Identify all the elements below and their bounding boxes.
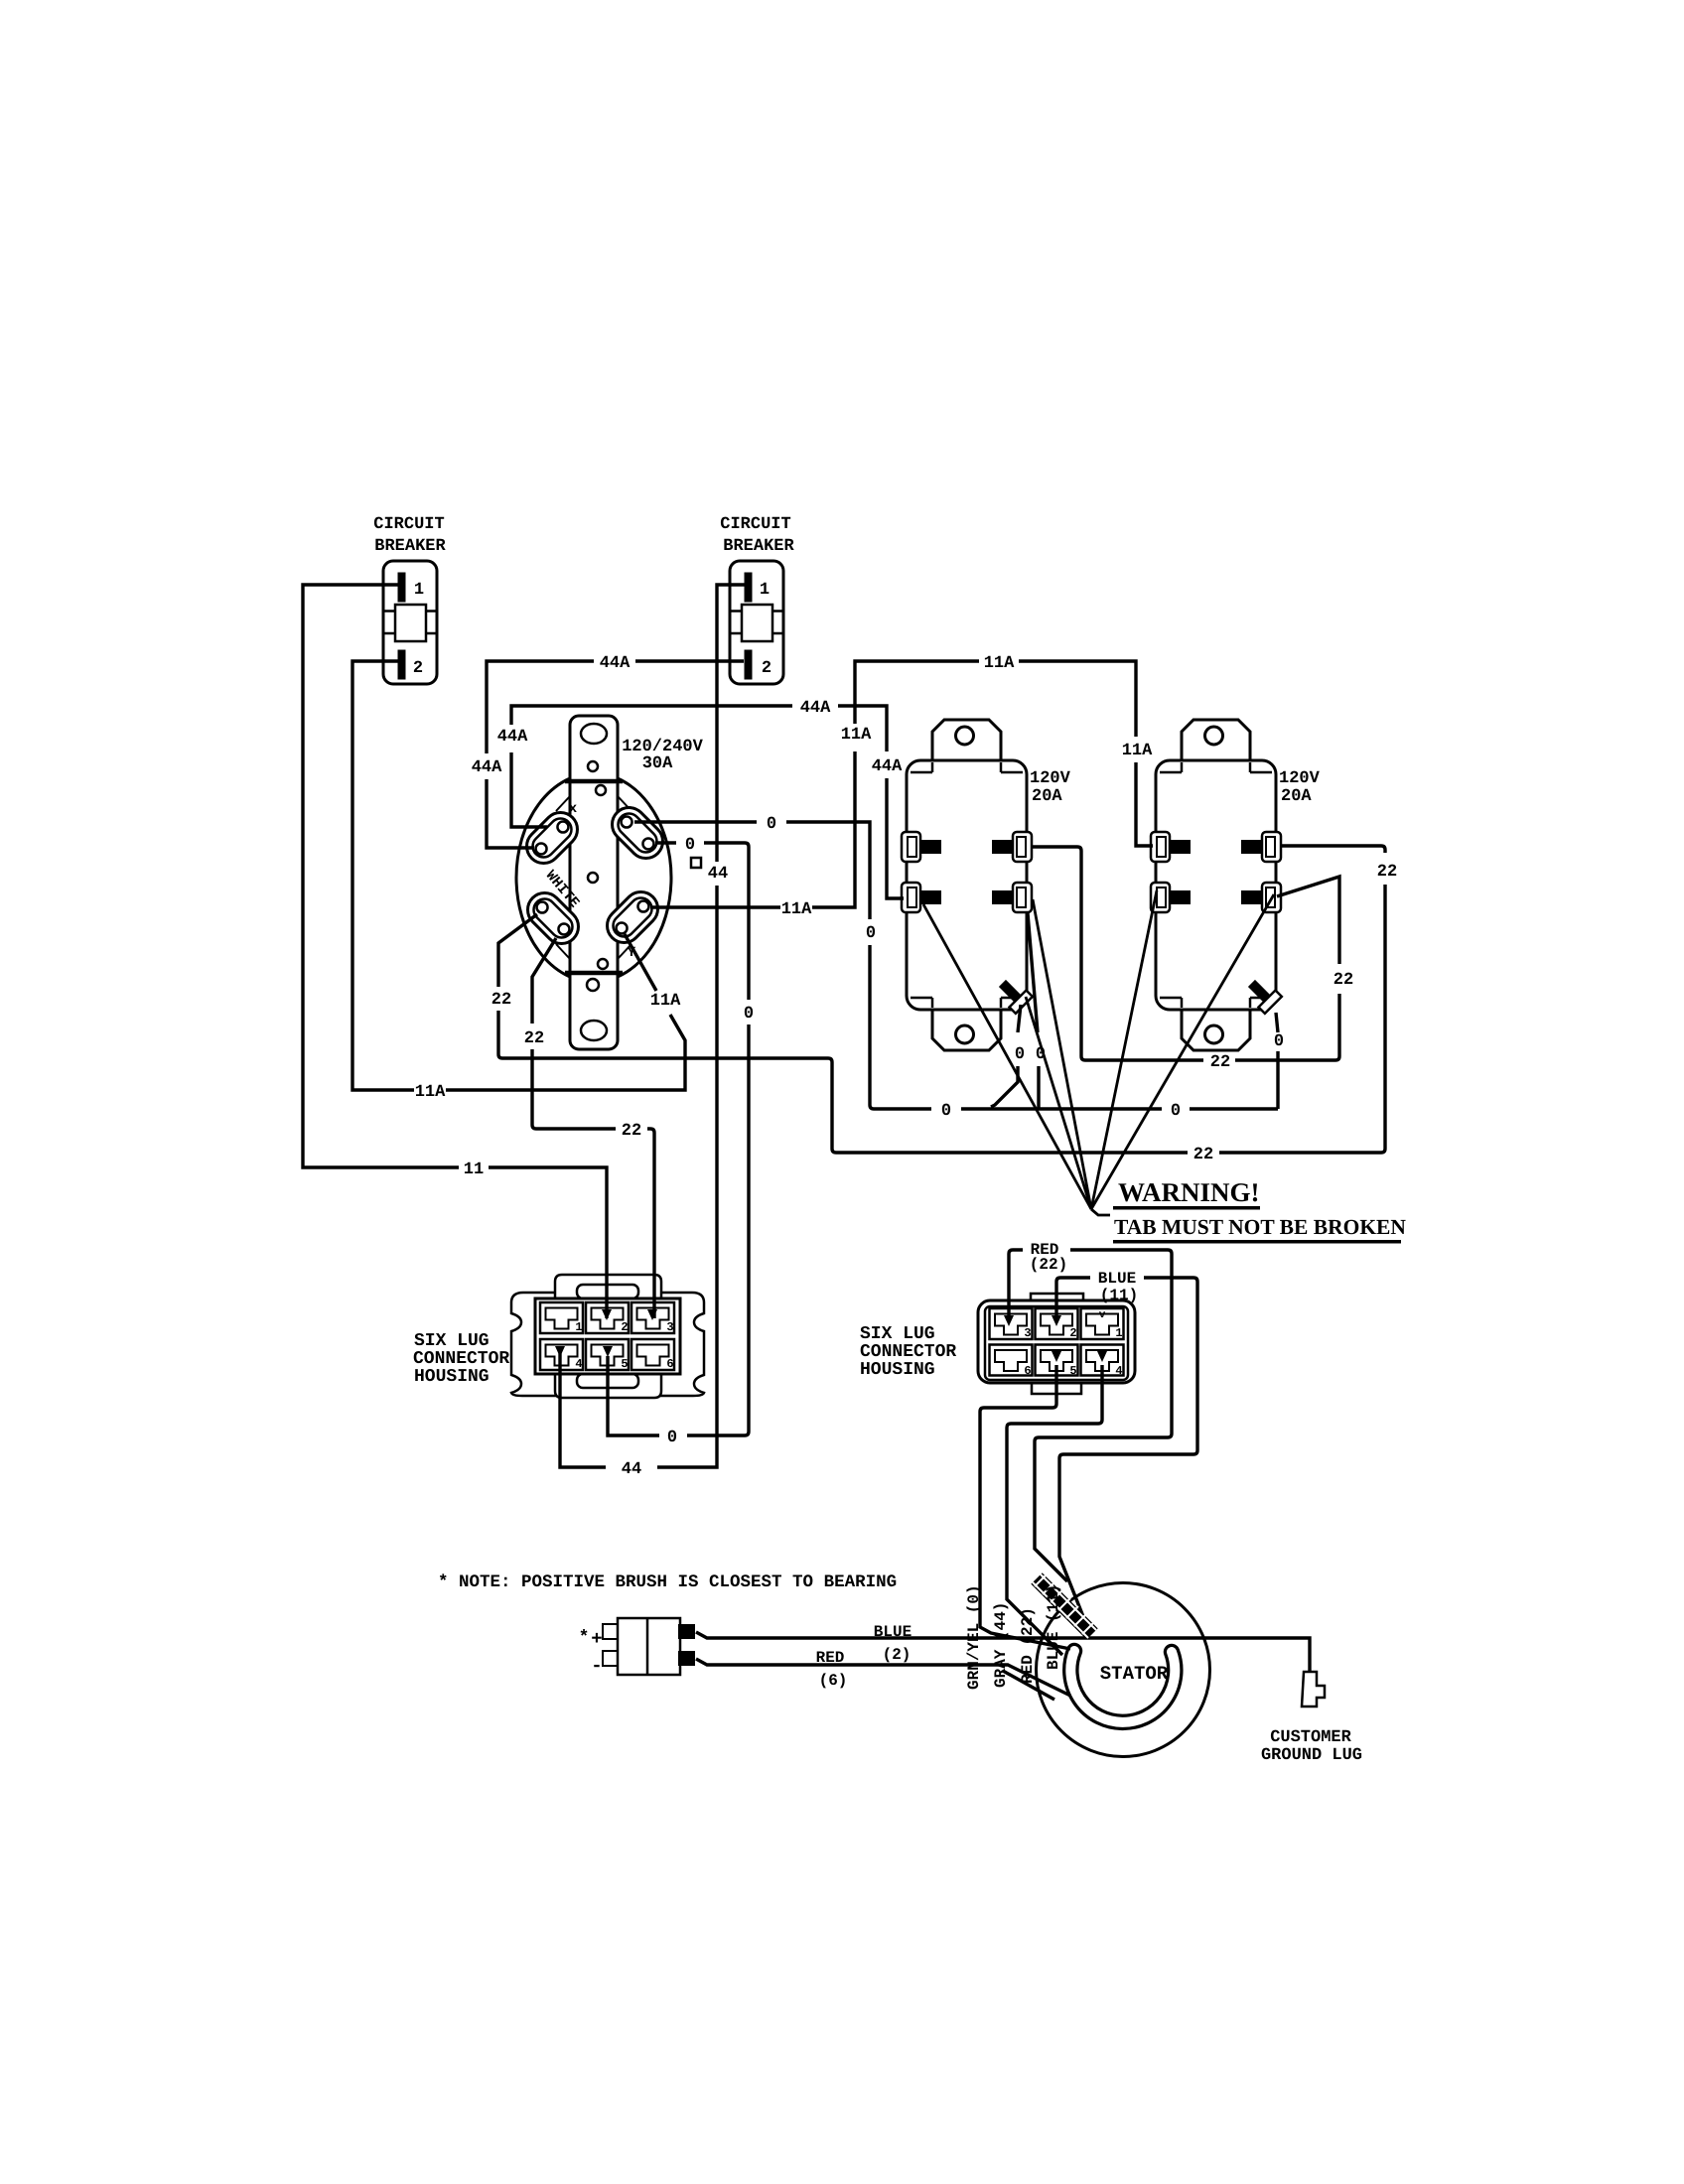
wire entry wedges right six-lug [1004, 1315, 1107, 1362]
harness bundle hatched band [1033, 1574, 1096, 1638]
svg-text:-: - [591, 1655, 602, 1677]
svg-text:44A: 44A [800, 699, 831, 718]
svg-text:22: 22 [1193, 1146, 1213, 1164]
svg-text:120V: 120V [1279, 769, 1321, 788]
wire 22: 30A WHITE slot upper to right duplex upper-right prong [498, 846, 1385, 1153]
wire 44A: 30A X slot upper to left duplex lower-left prong [511, 706, 904, 898]
svg-text:(11): (11) [1100, 1287, 1138, 1304]
receptacle 120V 20A right [1151, 720, 1282, 1050]
circuit breaker CB2 [730, 561, 783, 684]
svg-text:11: 11 [464, 1160, 484, 1179]
svg-text:BLUE: BLUE [1098, 1270, 1136, 1288]
svg-text:v: v [1099, 1309, 1106, 1321]
svg-text:11A: 11A [984, 654, 1015, 673]
svg-text:11A: 11A [415, 1083, 446, 1102]
svg-text:RED: RED [816, 1649, 845, 1667]
svg-text:STATOR: STATOR [1100, 1663, 1169, 1685]
svg-text:11A: 11A [1122, 742, 1153, 760]
30A slot W (top-right) [605, 800, 669, 865]
svg-text:22: 22 [491, 991, 511, 1010]
svg-text:1: 1 [575, 1320, 582, 1334]
svg-text:0: 0 [667, 1429, 677, 1447]
svg-text:6: 6 [666, 1357, 673, 1371]
svg-text:WARNING!: WARNING! [1118, 1177, 1260, 1207]
warning pointer lines to break-off tabs [923, 904, 1091, 1209]
30A mounting strap [570, 716, 618, 1049]
svg-text:TAB MUST NOT BE BROKEN: TAB MUST NOT BE BROKEN [1114, 1215, 1406, 1239]
svg-text:0: 0 [1015, 1045, 1025, 1064]
30A slot Y (bottom-right) [600, 885, 664, 949]
six-lug left cells 1-6 [540, 1302, 583, 1333]
svg-text:0: 0 [1171, 1102, 1181, 1121]
svg-text:44A: 44A [600, 654, 631, 673]
svg-text:+: + [591, 1628, 602, 1650]
svg-text:44A: 44A [872, 757, 903, 776]
svg-text:4: 4 [575, 1357, 582, 1371]
svg-text:HOUSING: HOUSING [860, 1360, 935, 1380]
30A slot X (top-left) [519, 805, 584, 870]
wire 0: left duplex lower-right prong drop to 0 bus [1028, 913, 1039, 1109]
svg-text:1: 1 [414, 581, 424, 600]
svg-text:GRAY (44): GRAY (44) [992, 1602, 1010, 1688]
svg-text:0: 0 [1036, 1045, 1046, 1064]
svg-text:Y: Y [628, 945, 636, 961]
label WHITE (rotated) [542, 868, 582, 911]
svg-text:HOUSING: HOUSING [414, 1367, 490, 1387]
receptacle 120V 20A left [902, 720, 1033, 1050]
svg-text:1: 1 [760, 581, 770, 600]
svg-text:2: 2 [762, 659, 772, 678]
30A slot WHITE (bottom-left) [520, 886, 585, 950]
wire 44: CB2 terminal1 to left six-lug pin 4 [560, 585, 745, 1467]
circuit breaker CB1 [383, 561, 437, 684]
svg-text:BREAKER: BREAKER [374, 537, 446, 556]
svg-text:SIX LUG: SIX LUG [860, 1324, 935, 1344]
svg-text:(6): (6) [819, 1672, 848, 1690]
svg-text:22: 22 [524, 1029, 544, 1048]
svg-text:5: 5 [1069, 1364, 1076, 1378]
svg-text:6: 6 [1024, 1364, 1031, 1378]
wire entry wedges left six-lug [555, 1309, 657, 1357]
svg-text:11A: 11A [650, 992, 681, 1011]
stator circle [1037, 1583, 1210, 1757]
wire RED(22): right six-lug pin 1 loop to harness [1009, 1250, 1172, 1581]
six lug connector housing (right) [978, 1294, 1135, 1394]
wire BLUE(2): brush to stator and customer ground lug [696, 1632, 1310, 1672]
svg-text:GRN/YEL (0): GRN/YEL (0) [965, 1584, 983, 1690]
svg-text:0: 0 [941, 1102, 951, 1121]
svg-text:22: 22 [1333, 971, 1353, 990]
svg-text:0: 0 [767, 815, 776, 834]
svg-text:SIX LUG: SIX LUG [414, 1331, 490, 1351]
svg-text:x: x [569, 801, 578, 817]
svg-text:2: 2 [1069, 1326, 1076, 1340]
wire 0: 30A W slot upper to 0 bus line [634, 822, 1278, 1109]
svg-text:RED (22): RED (22) [1019, 1607, 1037, 1684]
svg-text:5: 5 [621, 1357, 628, 1371]
svg-text:BLUE (11): BLUE (11) [1045, 1584, 1062, 1670]
wire 11: CB1 terminal1 to left six-lug pin 2 [303, 585, 607, 1318]
svg-text:(2): (2) [883, 1646, 912, 1664]
wire 22: 30A WHITE slot lower to left six-lug pin 3 [532, 938, 654, 1318]
svg-text:22: 22 [622, 1122, 641, 1141]
svg-text:0: 0 [1274, 1032, 1284, 1051]
svg-text:0: 0 [744, 1005, 754, 1024]
svg-text:44: 44 [708, 865, 728, 884]
svg-text:CUSTOMER: CUSTOMER [1270, 1728, 1351, 1747]
svg-text:11A: 11A [841, 726, 872, 745]
svg-text:2: 2 [413, 659, 423, 678]
wire 11A: CB1 terminal2 to 30A Y slot [352, 661, 685, 1090]
wire 22: left duplex upper-right prong to right duplex lower-right prong [1031, 847, 1339, 1060]
wire 0: right duplex screw to 0 bus [1276, 1013, 1278, 1109]
wire 0: left duplex screw drop to 0 bus [991, 1005, 1021, 1107]
wire 44A: CB2 terminal2 to 30A X slot lower [487, 661, 744, 848]
customer ground lug [1302, 1672, 1325, 1706]
svg-text:CONNECTOR: CONNECTOR [860, 1342, 956, 1362]
wire RED(6): brush to stator [696, 1659, 1070, 1700]
svg-text:CONNECTOR: CONNECTOR [413, 1349, 509, 1369]
svg-text:30A: 30A [642, 754, 673, 773]
svg-text:1: 1 [1115, 1326, 1122, 1340]
svg-text:BLUE: BLUE [874, 1623, 912, 1641]
receptacle 120/240V 30A body ellipse [516, 773, 671, 982]
stator winding horseshoe [1070, 1651, 1175, 1722]
svg-text:22: 22 [1210, 1053, 1230, 1072]
rotated harness labels [965, 1584, 983, 1690]
svg-text:20A: 20A [1281, 787, 1312, 806]
svg-text:3: 3 [1024, 1326, 1031, 1340]
svg-text:(22): (22) [1030, 1256, 1067, 1274]
wire BLUE(11): right six-lug pin 2 loop to harness [1056, 1278, 1197, 1619]
30A ground mark square [691, 858, 701, 868]
svg-text:GROUND LUG: GROUND LUG [1261, 1746, 1362, 1765]
six-lug right cells [990, 1308, 1033, 1339]
svg-text:CIRCUIT: CIRCUIT [373, 515, 444, 534]
svg-text:*: * [579, 1628, 590, 1648]
wire GRN/YEL(0): right six-lug pin 5 to stator frame [980, 1365, 1070, 1649]
svg-text:3: 3 [666, 1320, 673, 1334]
svg-text:22: 22 [1377, 863, 1397, 882]
svg-text:44A: 44A [497, 728, 528, 747]
svg-text:0: 0 [685, 836, 695, 855]
svg-text:0: 0 [866, 924, 876, 943]
brush assembly [603, 1618, 695, 1675]
svg-text:* NOTE: POSITIVE BRUSH IS CLOS: * NOTE: POSITIVE BRUSH IS CLOSEST TO BEA… [438, 1572, 897, 1592]
wire 0: 30A W slot lower to left six-lug pin 5 [608, 843, 749, 1435]
svg-text:11A: 11A [781, 900, 812, 919]
six lug connector housing (left) [511, 1275, 704, 1398]
wire GRAY(44): right six-lug pin 4 to harness [1007, 1365, 1102, 1655]
svg-text:44: 44 [622, 1460, 641, 1479]
svg-text:BREAKER: BREAKER [723, 537, 794, 556]
svg-text:44A: 44A [472, 758, 502, 777]
svg-text:120V: 120V [1030, 769, 1071, 788]
wire 11A: 30A Y slot to duplex receptacles top [650, 661, 1153, 907]
svg-text:4: 4 [1115, 1364, 1122, 1378]
svg-text:CIRCUIT: CIRCUIT [720, 515, 790, 534]
svg-text:2: 2 [621, 1320, 628, 1334]
svg-text:20A: 20A [1032, 787, 1062, 806]
